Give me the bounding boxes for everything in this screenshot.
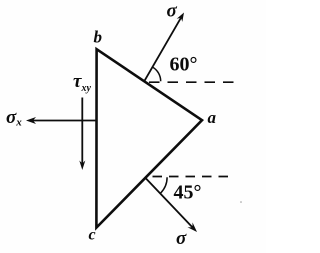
svg-text:a: a: [208, 108, 217, 127]
svg-text:τxy: τxy: [73, 71, 91, 94]
svg-text:c: c: [89, 227, 96, 244]
svg-text:60°: 60°: [170, 54, 198, 76]
svg-text:σ: σ: [176, 228, 187, 249]
svg-text:45°: 45°: [174, 182, 202, 204]
svg-text:b: b: [94, 28, 103, 47]
svg-text:σx: σx: [6, 107, 22, 129]
svg-text:σ: σ: [167, 1, 178, 22]
